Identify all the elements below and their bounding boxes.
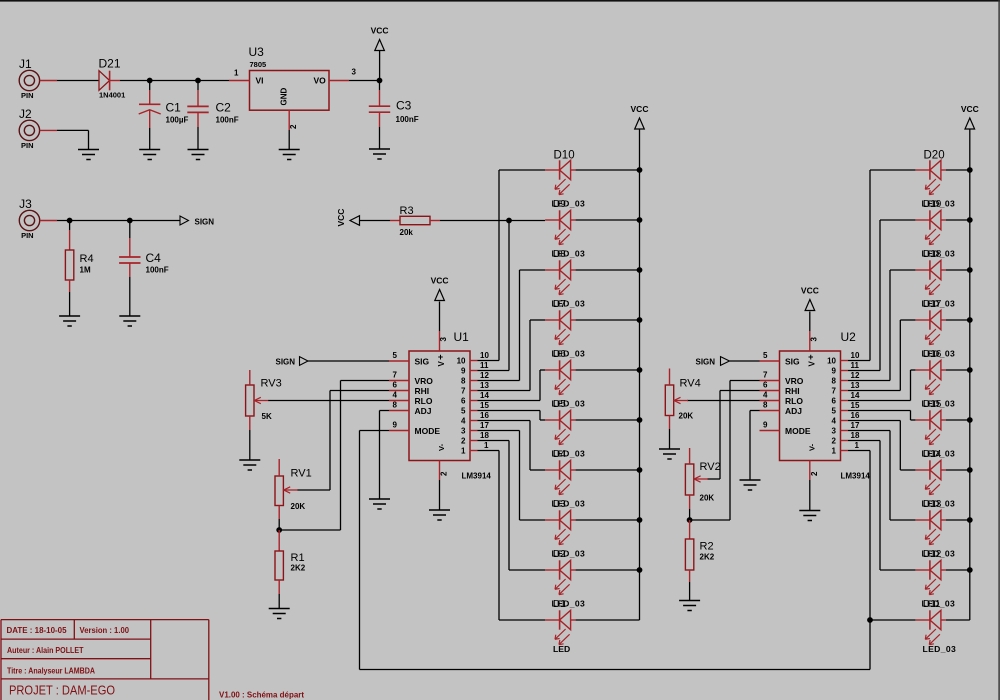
LED D15 (915, 410, 946, 444)
wire D18 anode to rail (946, 269, 970, 271)
svg-text:3: 3 (461, 427, 466, 436)
wire D13 anode to rail (946, 519, 970, 521)
ground R2 (679, 601, 700, 611)
ground U2 ADJ (740, 480, 761, 490)
LED D12 (915, 560, 946, 594)
label D12 overlapped value (922, 549, 956, 561)
page top border (0, 0, 1000, 2)
svg-text:D1: D1 (553, 599, 566, 610)
resistor R1 (278, 530, 280, 551)
wire U2 RHI to RV2 wiper (720, 390, 760, 392)
U2 pin 5 SIG (760, 351, 801, 366)
node rail junction 520 (637, 517, 643, 523)
wire U2 pin18 to D12 (848, 440, 880, 442)
svg-text:6: 6 (461, 397, 466, 406)
ground U1 pin2 (429, 510, 450, 520)
U2 pin 7 VRO (760, 371, 804, 386)
capacitor C3 (379, 81, 381, 107)
U2 output pin 18 (832, 431, 860, 446)
node right rail junction 470 (967, 467, 973, 473)
svg-text:20K: 20K (291, 502, 306, 511)
wire D19 anode to rail (946, 219, 970, 221)
ground J2 (78, 150, 99, 160)
svg-text:RV2: RV2 (700, 461, 721, 473)
op-amp U1 LM3914 box (409, 330, 491, 481)
label D7 overlapped value (552, 299, 586, 311)
svg-text:PIN: PIN (21, 231, 34, 240)
U2 output pin 12 (832, 371, 860, 386)
svg-text:100µF: 100µF (166, 116, 189, 125)
LED D19 (915, 210, 946, 244)
capacitor C4 (129, 221, 131, 258)
U1 output pin 15 (461, 401, 489, 416)
svg-text:1: 1 (484, 441, 489, 450)
svg-text:1: 1 (234, 69, 239, 78)
svg-text:VCC: VCC (801, 286, 819, 296)
wire U1 MODE to bottom rail (360, 430, 390, 432)
svg-text:LM3914: LM3914 (841, 472, 871, 481)
wire D15 anode to rail (946, 419, 970, 421)
svg-text:1M: 1M (80, 266, 91, 275)
LED D3 (545, 510, 576, 544)
svg-text:2: 2 (440, 471, 449, 476)
resistor R3 (390, 205, 440, 237)
svg-text:15: 15 (851, 401, 860, 410)
svg-text:D7: D7 (553, 299, 566, 310)
node right rail junction 270 (967, 267, 973, 273)
wire D3 anode to rail (576, 519, 640, 521)
svg-text:D13: D13 (923, 499, 942, 510)
VCC symbol left arrow (336, 209, 360, 227)
ground C2 (188, 150, 209, 160)
LED D9 (545, 210, 576, 244)
U2 output pin 17 (832, 421, 860, 436)
wire U1 pin15 to D5 (478, 410, 541, 412)
svg-text:VCC: VCC (961, 104, 979, 114)
svg-text:1: 1 (855, 441, 860, 450)
wire SIGN to U1 SIG (308, 360, 389, 362)
svg-text:2K2: 2K2 (291, 564, 306, 573)
U1 pin 4 RLO (389, 391, 433, 406)
svg-text:D8: D8 (553, 249, 566, 260)
svg-text:8: 8 (461, 377, 466, 386)
svg-text:3: 3 (352, 68, 357, 77)
wire J1 to D21 (40, 80, 57, 82)
node right rail junction 520 (967, 517, 973, 523)
svg-text:VI: VI (256, 76, 264, 86)
title block (1, 620, 209, 700)
svg-text:5: 5 (763, 351, 768, 360)
U3 pin 2 (288, 110, 290, 130)
svg-text:1: 1 (461, 447, 466, 456)
svg-text:D10: D10 (554, 150, 575, 162)
U2 pin 8 ADJ (760, 401, 803, 416)
wire D12 anode to rail (946, 569, 970, 571)
svg-text:5K: 5K (262, 412, 272, 421)
svg-text:100nF: 100nF (216, 116, 239, 125)
wire U2 pin10 to D20 (848, 360, 870, 362)
node pin11 junction (506, 218, 512, 224)
LED D20 (915, 160, 946, 194)
capacitor C2 (197, 81, 199, 107)
svg-text:RV3: RV3 (261, 378, 282, 390)
svg-text:18: 18 (480, 431, 489, 440)
svg-text:1N4001: 1N4001 (99, 91, 125, 100)
svg-text:6: 6 (393, 381, 398, 390)
svg-text:6: 6 (832, 397, 837, 406)
label D4 overlapped value (552, 449, 586, 461)
wire U2 pin16 to D14 (848, 420, 900, 422)
svg-text:U2: U2 (841, 330, 857, 344)
svg-text:SIGN: SIGN (276, 357, 296, 366)
node right rail junction 220 (967, 217, 973, 223)
svg-text:V: V (437, 361, 446, 367)
svg-text:5: 5 (393, 351, 398, 360)
node rail junction 170 (637, 167, 643, 173)
svg-text:8: 8 (763, 401, 768, 410)
wire U2 ADJ to ground (750, 410, 760, 412)
wire VCC to node (379, 51, 381, 81)
svg-text:Auteur : Alain POLLET: Auteur : Alain POLLET (7, 646, 84, 655)
svg-text:13: 13 (851, 381, 860, 390)
LED D4 (545, 460, 576, 494)
svg-text:LED: LED (553, 644, 570, 654)
svg-text:10: 10 (457, 357, 466, 366)
svg-text:D18: D18 (923, 249, 942, 260)
svg-text:8: 8 (393, 401, 398, 410)
svg-text:VRO: VRO (785, 376, 804, 386)
wire U1 pin17 to D3 (478, 430, 520, 432)
svg-text:9: 9 (832, 367, 837, 376)
U2 output pin 15 (832, 401, 860, 416)
resistor R2 (689, 520, 691, 539)
wire D7 anode to rail (576, 319, 640, 321)
LED D8 (545, 260, 576, 294)
regulator U3 7805 (249, 45, 330, 110)
node junction C1 (147, 78, 153, 84)
svg-text:8: 8 (832, 377, 837, 386)
svg-text:MODE: MODE (415, 426, 441, 436)
wire U2 RLO to RV4 wiper (687, 400, 760, 402)
node rail junction 220 (637, 217, 643, 223)
svg-text:RV1: RV1 (291, 468, 312, 480)
svg-text:VCC: VCC (431, 276, 449, 286)
resistor R4 (69, 221, 71, 231)
svg-text:20K: 20K (679, 412, 694, 421)
svg-text:SIG: SIG (415, 356, 430, 366)
capacitor C4 plates (119, 257, 140, 263)
svg-text:C3: C3 (396, 99, 412, 113)
wire R3 to D9 (440, 220, 545, 222)
wire U2 pin17 to D13 (848, 430, 890, 432)
wire U2 pin12 to D18 (848, 380, 890, 382)
U2 output pin 16 (832, 411, 860, 426)
wire bottom rail (360, 669, 871, 671)
U1 output pin 17 (461, 421, 489, 436)
potentiometer RV4 (665, 385, 688, 416)
node right rail junction 420 (967, 417, 973, 423)
svg-text:12: 12 (851, 371, 860, 380)
svg-text:2: 2 (810, 471, 819, 476)
svg-text:J1: J1 (19, 57, 32, 71)
U2 pin 2 V- (807, 443, 819, 510)
node right rail junction 320 (967, 317, 973, 323)
wire U2 pin11 to D19 (848, 370, 880, 372)
svg-text:C1: C1 (166, 101, 182, 115)
net label SIGN input U2 (696, 357, 730, 367)
wire D21 to U3 pin1 (120, 80, 229, 82)
connector J1 (19, 57, 40, 100)
U1 output pin 11 (461, 361, 489, 376)
node rail junction 570 (637, 567, 643, 573)
svg-text:R4: R4 (80, 253, 94, 265)
wire U1 pin16 to D4 (478, 420, 531, 422)
svg-text:Version : 1.00: Version : 1.00 (80, 626, 130, 635)
label D14 overlapped value (922, 449, 956, 461)
wire U2 pin13 to D17 (848, 390, 900, 392)
U1 output pin 16 (461, 411, 489, 426)
wire D20 anode to rail (946, 169, 970, 171)
svg-text:D15: D15 (923, 399, 942, 410)
U1 output pin 10 (457, 351, 490, 366)
svg-text:RLO: RLO (415, 396, 433, 406)
label D11 overlapped value (922, 599, 956, 611)
node right rail junction 570 (967, 567, 973, 573)
node right rail junction 370 (967, 367, 973, 373)
wire U1 pin10 to D10 (478, 360, 500, 362)
LED D18 (915, 260, 946, 294)
label D8 overlapped value (552, 249, 586, 261)
capacitor C3 plates (369, 106, 390, 112)
svg-text:D16: D16 (923, 349, 942, 360)
svg-text:100nF: 100nF (396, 115, 419, 124)
op-amp U2 LM3914 box (780, 330, 871, 481)
connector J3 (19, 197, 40, 240)
svg-text:VCC: VCC (631, 104, 649, 114)
wire D9 anode to rail (576, 219, 640, 221)
wire D2 anode to rail (576, 569, 640, 571)
potentiometer RV1 (275, 476, 298, 506)
svg-text:D5: D5 (553, 399, 566, 410)
U3 pin 1 (229, 80, 250, 82)
VCC symbol U1 (431, 276, 449, 301)
svg-text:RHI: RHI (415, 386, 430, 396)
svg-text:100nF: 100nF (146, 266, 169, 275)
label D17 overlapped value (922, 299, 956, 311)
ground C3 (369, 149, 390, 159)
svg-text:17: 17 (480, 421, 489, 430)
svg-text:10: 10 (480, 351, 489, 360)
U1 pin 8 ADJ (389, 401, 432, 416)
resistor R1 body (275, 551, 283, 580)
wire U2 VRO to R2/RV2 junction (730, 380, 760, 382)
U3 pin 3 (329, 80, 349, 82)
wire J2 to ground (40, 129, 57, 131)
U1 output pin 13 (461, 381, 489, 396)
capacitor C1 plates (139, 104, 161, 114)
svg-text:7: 7 (832, 387, 837, 396)
U2 pin 4 RLO (760, 391, 804, 406)
label D1 overlapped value (552, 599, 586, 611)
wire D5 anode to rail (576, 419, 640, 421)
svg-text:D21: D21 (99, 57, 121, 71)
U1 output pin 12 (461, 371, 489, 386)
wire D17 anode to rail (946, 319, 970, 321)
U1 output pin 14 (461, 391, 489, 406)
wire U1 pin12 to D8 (478, 380, 520, 382)
wire U1 pin11 to D9 (478, 370, 510, 372)
svg-text:ADJ: ADJ (785, 406, 802, 416)
svg-text:D19: D19 (923, 199, 942, 210)
wire D10 anode to rail (576, 169, 640, 171)
U2 output pin 10 (827, 351, 860, 366)
svg-text:3: 3 (809, 337, 818, 342)
wire D14 anode to rail (946, 469, 970, 471)
U2 output pin 14 (832, 391, 860, 406)
wire U1 ADJ to ground (380, 410, 390, 412)
svg-text:PIN: PIN (21, 91, 34, 100)
svg-text:U1: U1 (454, 330, 470, 344)
node rail junction 370 (637, 367, 643, 373)
svg-text:12: 12 (480, 371, 489, 380)
svg-text:20k: 20k (400, 228, 414, 237)
svg-text:R2: R2 (700, 541, 714, 553)
VCC symbol left rail (631, 104, 649, 129)
label D9 overlapped value (552, 199, 586, 211)
wire U1 pin13 to D7 (478, 390, 531, 392)
capacitor C1 (149, 81, 151, 105)
svg-text:2K2: 2K2 (700, 553, 715, 562)
svg-text:VO: VO (314, 76, 327, 86)
svg-text:2: 2 (461, 437, 466, 446)
svg-text:C2: C2 (216, 101, 232, 115)
svg-text:16: 16 (480, 411, 489, 420)
wire U1 RLO to RV3 wiper (268, 400, 389, 402)
svg-text:11: 11 (851, 361, 860, 370)
wire SIGN to U2 SIG (730, 360, 760, 362)
U1 pin 6 RHI (389, 381, 429, 396)
wire U2 pin1 to D11 (848, 450, 870, 452)
svg-text:U3: U3 (249, 45, 265, 59)
ground RV3 (239, 460, 260, 470)
wire D6 anode to rail (576, 369, 640, 371)
wire U1 pin18 to D2 (478, 440, 510, 442)
U2 output pin 1 (832, 441, 860, 456)
svg-text:D20: D20 (924, 150, 945, 162)
U1 output pin 18 (461, 431, 489, 446)
node D11 cathode junction (867, 617, 873, 623)
node R4 junction (67, 218, 73, 224)
U1 pin 5 SIG (389, 351, 430, 366)
wire rail corner to D11 anode (946, 619, 970, 621)
wire U2 pin15 to D15 (848, 410, 911, 412)
LED D13 (915, 510, 946, 544)
net label SIGN output (180, 216, 214, 227)
label D15 overlapped value (922, 399, 956, 411)
svg-text:V-: V- (807, 443, 816, 451)
svg-text:3: 3 (832, 427, 837, 436)
svg-text:17: 17 (851, 421, 860, 430)
U1 pin 2 V- (437, 443, 449, 510)
svg-text:+: + (808, 352, 813, 362)
svg-text:9: 9 (393, 421, 398, 430)
svg-text:C4: C4 (146, 251, 162, 265)
wire U1 VRO to R1/RV1 junction (341, 380, 390, 382)
svg-text:V1.00 : Schéma départ: V1.00 : Schéma départ (219, 691, 304, 700)
label D13 overlapped value (922, 499, 956, 511)
svg-text:7: 7 (763, 371, 768, 380)
wire U1 pin1 to D1 (478, 450, 500, 452)
connector J2 (19, 107, 40, 150)
wire pin1 vertical to bottom rail (869, 620, 871, 670)
svg-text:J3: J3 (19, 197, 32, 211)
svg-text:V-: V- (437, 443, 446, 451)
svg-text:9: 9 (461, 367, 466, 376)
svg-text:D9: D9 (553, 199, 566, 210)
svg-text:11: 11 (480, 361, 489, 370)
VCC symbol top (371, 26, 389, 51)
svg-text:PROJET : DAM-EGO: PROJET : DAM-EGO (9, 683, 115, 698)
ground U3 (279, 150, 300, 160)
label D6 overlapped value (552, 349, 586, 361)
label D2 overlapped value (552, 549, 586, 561)
LED D17 (915, 310, 946, 344)
svg-text:RV4: RV4 (680, 378, 701, 390)
svg-text:1: 1 (832, 447, 837, 456)
node C4 junction (127, 218, 133, 224)
svg-text:4: 4 (393, 391, 398, 400)
svg-text:R3: R3 (400, 205, 414, 217)
svg-text:15: 15 (480, 401, 489, 410)
wire D4 anode to rail (576, 469, 640, 471)
svg-text:14: 14 (851, 391, 860, 400)
ground U2 pin2 (799, 511, 820, 521)
svg-text:D12: D12 (923, 549, 942, 560)
ground U1 ADJ (369, 499, 390, 509)
label D3 overlapped value (552, 499, 586, 511)
svg-text:D2: D2 (553, 549, 566, 560)
potentiometer RV2 (685, 464, 708, 495)
LED D7 (545, 310, 576, 344)
svg-text:SIGN: SIGN (696, 357, 716, 366)
svg-text:VCC: VCC (371, 26, 389, 36)
U1 pin 3 V+ (437, 302, 448, 367)
svg-text:SIG: SIG (785, 356, 800, 366)
svg-text:VRO: VRO (415, 376, 434, 386)
node rail junction 270 (637, 267, 643, 273)
node rail junction 470 (637, 467, 643, 473)
node junction C2 (195, 78, 201, 84)
U2 pin 6 RHI (760, 381, 800, 396)
svg-text:VCC: VCC (336, 209, 346, 227)
node rail junction 320 (637, 317, 643, 323)
svg-text:D6: D6 (553, 349, 566, 360)
svg-text:2: 2 (289, 124, 298, 129)
svg-text:7: 7 (393, 371, 398, 380)
U2 output pin 13 (832, 381, 860, 396)
svg-text:10: 10 (851, 351, 860, 360)
LED D1 (545, 610, 576, 644)
svg-text:D17: D17 (923, 299, 942, 310)
ground R1 (269, 609, 290, 619)
svg-text:RLO: RLO (785, 396, 803, 406)
svg-text:14: 14 (480, 391, 489, 400)
svg-text:6: 6 (763, 381, 768, 390)
svg-text:7: 7 (461, 387, 466, 396)
label D5 overlapped value (552, 399, 586, 411)
ground R4 (59, 316, 80, 326)
ground C4 (119, 316, 140, 326)
